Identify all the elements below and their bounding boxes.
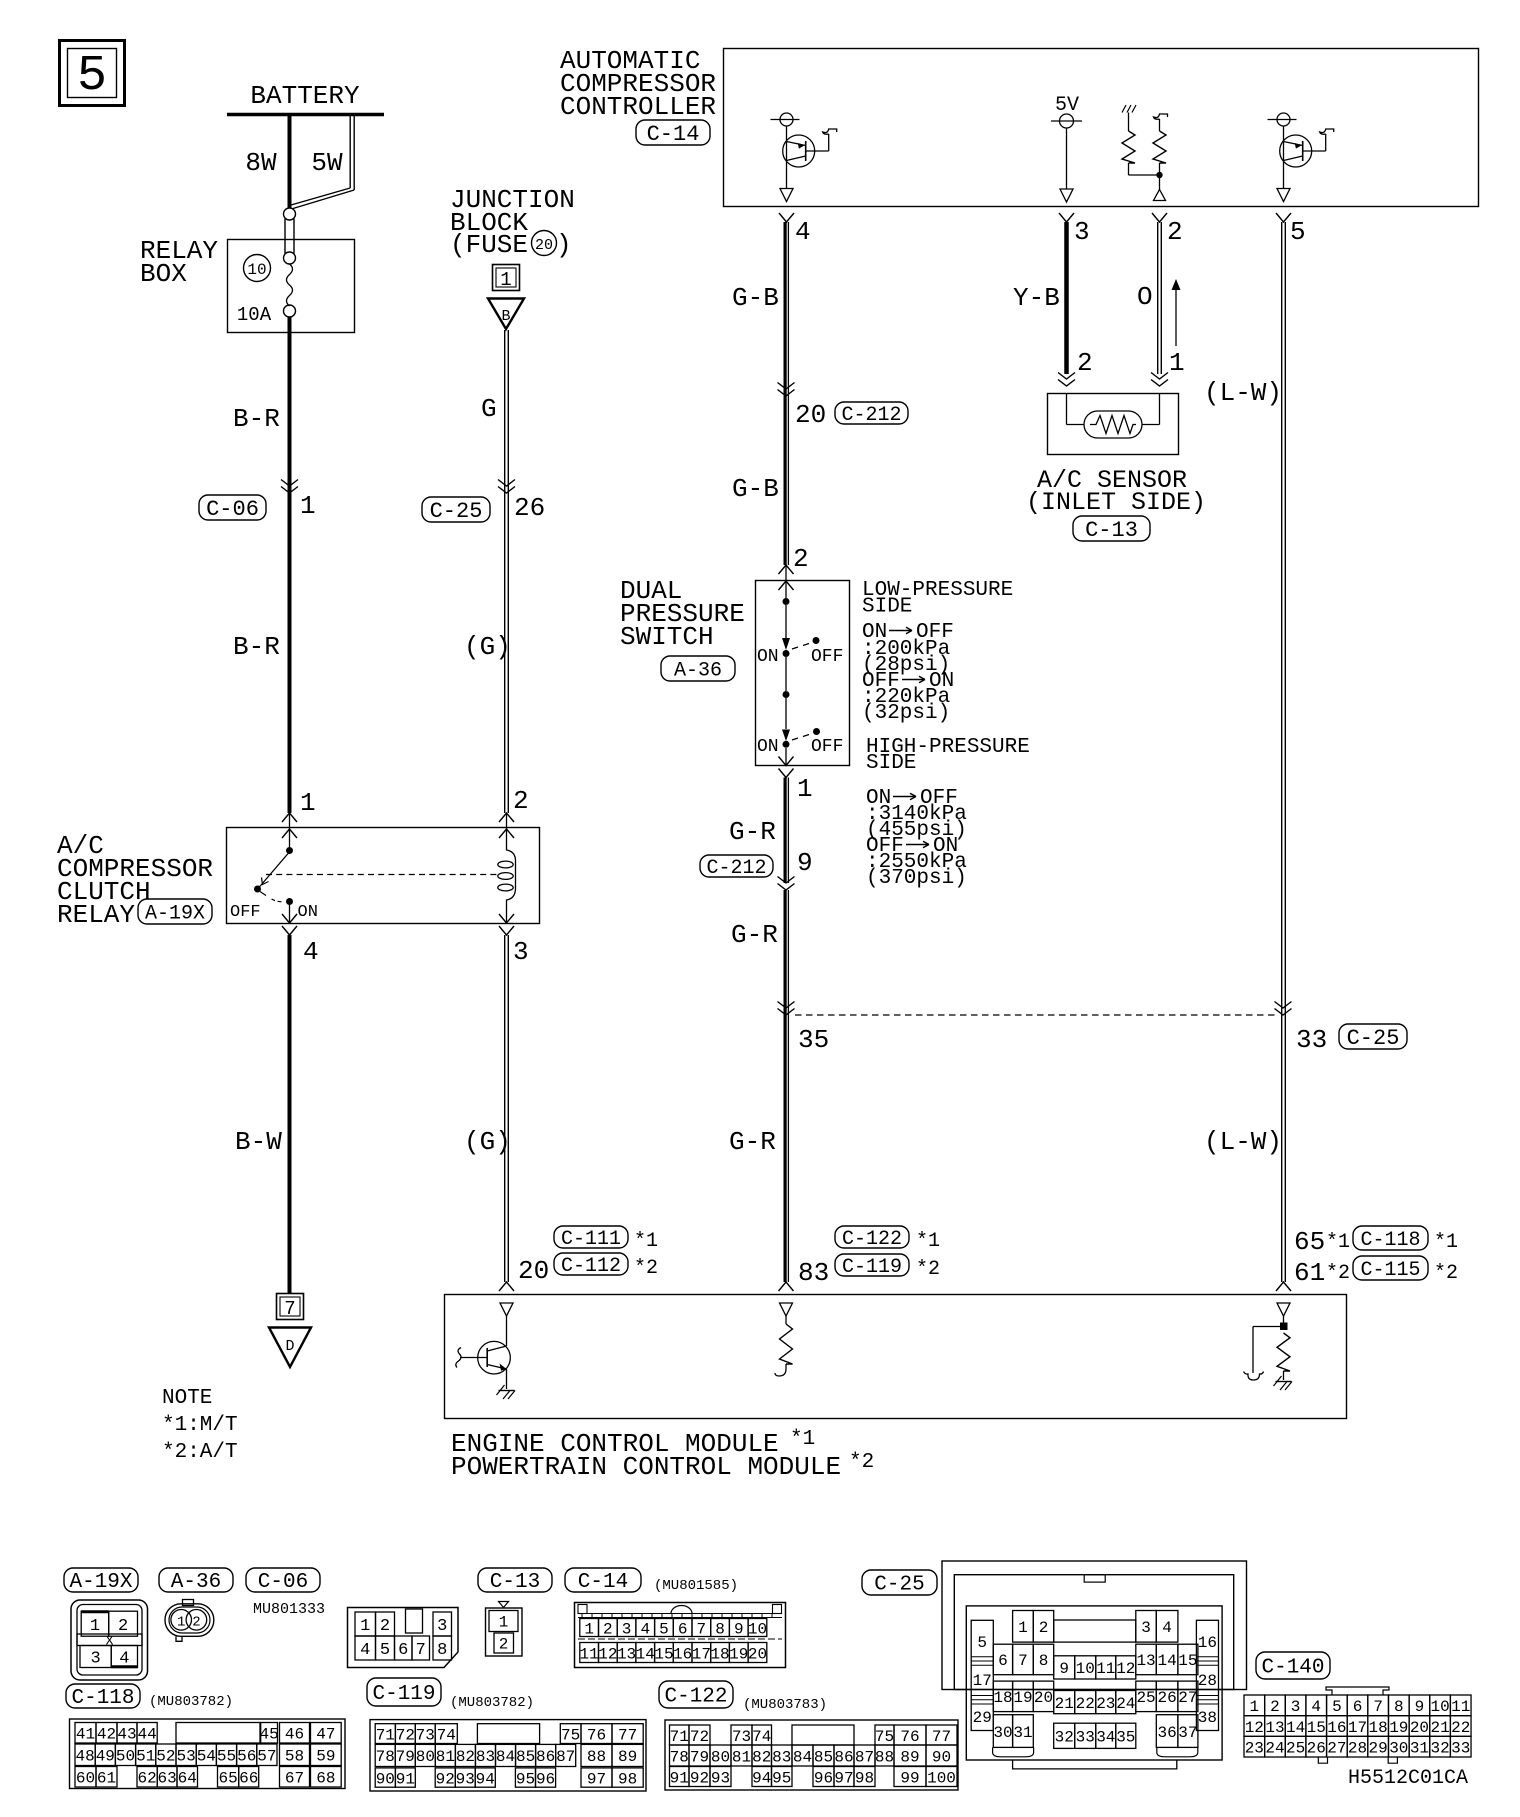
wire O controller pin2 to sensor pin1: [1137, 222, 1161, 374]
A/C sensor (inlet side) C-13 thermistor: [1026, 393, 1206, 543]
connector C-14 pinout: [575, 1603, 786, 1668]
svg-text:96: 96: [814, 1769, 833, 1787]
svg-text:61: 61: [1294, 1258, 1325, 1288]
svg-text:C-14: C-14: [647, 122, 700, 147]
svg-text:10A: 10A: [237, 304, 272, 326]
wire label G-B lower: [732, 474, 779, 504]
svg-text:OFF: OFF: [230, 903, 261, 922]
svg-text:10: 10: [247, 261, 266, 279]
ECM pin 20 entry: [499, 1282, 514, 1316]
svg-text:50: 50: [116, 1748, 135, 1766]
legend label C-25: [862, 1570, 937, 1597]
svg-text:9: 9: [1059, 1660, 1069, 1678]
svg-text:81: 81: [732, 1748, 751, 1766]
junction block fuse 20: [450, 185, 575, 260]
svg-text:SWITCH: SWITCH: [620, 622, 714, 652]
svg-text:4: 4: [303, 937, 319, 967]
svg-text:1: 1: [177, 1615, 185, 1631]
svg-text:25: 25: [1136, 1689, 1155, 1707]
svg-text:*1:M/T: *1:M/T: [162, 1414, 238, 1437]
svg-text:54: 54: [197, 1748, 216, 1766]
svg-text:*2: *2: [634, 1257, 658, 1280]
svg-text:86: 86: [834, 1748, 853, 1766]
svg-text:1: 1: [584, 1620, 594, 1638]
svg-text:2: 2: [603, 1620, 613, 1638]
drawing number H5512C01CA: [1348, 1767, 1468, 1790]
svg-text:1: 1: [1250, 1698, 1260, 1716]
svg-text:G-R: G-R: [729, 817, 776, 847]
svg-text:1: 1: [360, 1617, 370, 1636]
svg-text:64: 64: [178, 1770, 197, 1788]
svg-text:21: 21: [1055, 1695, 1074, 1713]
relay pin 1: [282, 788, 316, 838]
svg-text:2: 2: [118, 1617, 128, 1636]
svg-text:ON: ON: [757, 737, 779, 757]
svg-text:19: 19: [729, 1645, 748, 1663]
svg-text:93: 93: [456, 1770, 475, 1788]
svg-text:78: 78: [376, 1748, 395, 1766]
svg-text:1: 1: [1169, 348, 1185, 378]
legend label C-119: [367, 1678, 534, 1711]
svg-text:11: 11: [1096, 1660, 1115, 1678]
svg-text:49: 49: [96, 1748, 115, 1766]
controller output transistor Q2: [1268, 113, 1334, 202]
svg-text:*1: *1: [916, 1230, 940, 1253]
svg-text:(L-W): (L-W): [1204, 1127, 1282, 1157]
battery: [227, 81, 384, 115]
svg-text:88: 88: [875, 1748, 894, 1766]
svg-text:8: 8: [437, 1641, 447, 1660]
svg-text:*2: *2: [1434, 1262, 1458, 1285]
svg-text:98: 98: [855, 1769, 874, 1787]
svg-text:85: 85: [516, 1748, 535, 1766]
svg-text:6: 6: [998, 1652, 1008, 1670]
svg-text:C-13: C-13: [1085, 518, 1138, 543]
low pressure thresholds: [862, 621, 954, 725]
svg-text:SIDE: SIDE: [862, 595, 912, 618]
svg-text:100: 100: [927, 1769, 956, 1787]
svg-text:10: 10: [1076, 1660, 1095, 1678]
svg-text:1: 1: [499, 1614, 509, 1632]
svg-text:*1: *1: [1326, 1231, 1350, 1254]
svg-text:6: 6: [1353, 1698, 1363, 1716]
svg-text:99: 99: [900, 1769, 919, 1787]
legend label C-122: [659, 1681, 827, 1713]
fusible link: [284, 208, 296, 264]
svg-text:5: 5: [380, 1641, 390, 1660]
svg-text:C-06: C-06: [206, 497, 259, 522]
fuse 10 (10A): [237, 255, 296, 327]
svg-text:1: 1: [1018, 1619, 1028, 1637]
svg-text:20: 20: [535, 237, 553, 254]
svg-text:B-R: B-R: [233, 404, 280, 434]
svg-text:BATTERY: BATTERY: [250, 81, 360, 111]
svg-text:74: 74: [437, 1726, 456, 1744]
sensor pin 1: [1151, 348, 1185, 386]
svg-text:27: 27: [1178, 1689, 1197, 1707]
svg-text:76: 76: [587, 1726, 606, 1744]
svg-text:8: 8: [715, 1620, 725, 1638]
svg-text:22: 22: [1076, 1695, 1095, 1713]
svg-text:3: 3: [622, 1620, 632, 1638]
svg-text:94: 94: [752, 1769, 771, 1787]
svg-text:97: 97: [587, 1770, 606, 1788]
svg-text:15: 15: [1307, 1719, 1326, 1737]
svg-text:30: 30: [993, 1724, 1012, 1742]
wire B-R relay box to C-06: [233, 317, 290, 829]
svg-text:80: 80: [711, 1748, 730, 1766]
svg-text:19: 19: [1389, 1719, 1408, 1737]
svg-text:C-13: C-13: [490, 1571, 540, 1594]
svg-text:24: 24: [1265, 1739, 1284, 1757]
svg-text:OFF: OFF: [811, 737, 843, 757]
svg-text:17: 17: [973, 1672, 992, 1690]
svg-text:13: 13: [1136, 1652, 1155, 1670]
connector C-140 pinout: [1244, 1687, 1471, 1763]
relay pin 3: [499, 914, 529, 967]
svg-text:95: 95: [516, 1770, 535, 1788]
svg-text:8: 8: [1394, 1698, 1404, 1716]
svg-text:C-122: C-122: [842, 1228, 902, 1251]
svg-text:POWERTRAIN CONTROL MODULE: POWERTRAIN CONTROL MODULE: [451, 1452, 841, 1482]
sheet number 5 box: [60, 41, 125, 106]
svg-text:16: 16: [673, 1645, 692, 1663]
svg-text:*1: *1: [634, 1230, 658, 1253]
svg-text:C-111: C-111: [561, 1228, 621, 1251]
svg-text:25: 25: [1286, 1739, 1305, 1757]
svg-text:32: 32: [1430, 1739, 1449, 1757]
svg-text:7: 7: [416, 1641, 426, 1660]
svg-text:56: 56: [237, 1748, 256, 1766]
svg-text:8: 8: [1039, 1652, 1049, 1670]
svg-text:79: 79: [396, 1748, 415, 1766]
svg-text:C-140: C-140: [1261, 1657, 1324, 1680]
svg-text:65: 65: [1294, 1227, 1325, 1257]
wire G-R to ECM: [729, 890, 788, 1282]
relay coil: [498, 829, 516, 923]
svg-text:47: 47: [316, 1726, 335, 1744]
svg-text:53: 53: [176, 1748, 195, 1766]
svg-text:10: 10: [1430, 1698, 1449, 1716]
node 35 C-25: [778, 1002, 830, 1056]
svg-text:C-118: C-118: [1360, 1229, 1420, 1252]
svg-text:32: 32: [1055, 1729, 1074, 1747]
svg-text:11: 11: [580, 1645, 599, 1663]
legend label C-13: [478, 1568, 552, 1594]
svg-text:85: 85: [814, 1748, 833, 1766]
wire 5W battery feed: [291, 116, 354, 209]
svg-text:94: 94: [476, 1770, 495, 1788]
svg-text:48: 48: [75, 1748, 94, 1766]
controller output transistor Q1: [771, 113, 837, 202]
svg-text:84: 84: [496, 1748, 515, 1766]
wire G-B controller pin4 to C-212: [732, 222, 788, 565]
svg-text:89: 89: [618, 1748, 637, 1766]
svg-text:83: 83: [798, 1258, 829, 1288]
svg-text:(G): (G): [464, 632, 511, 662]
svg-text:83: 83: [772, 1748, 791, 1766]
svg-text:26: 26: [1307, 1739, 1326, 1757]
legend label A-19X: [64, 1568, 138, 1594]
svg-text:91: 91: [670, 1769, 689, 1787]
wire G relay to ECM: [464, 935, 511, 1282]
svg-text:35: 35: [798, 1025, 829, 1055]
svg-text:26: 26: [1157, 1689, 1176, 1707]
svg-text:88: 88: [587, 1748, 606, 1766]
svg-text:26: 26: [514, 493, 545, 523]
wire label (G): [464, 632, 511, 662]
svg-text:42: 42: [97, 1726, 116, 1744]
wire G-R switch to C-212: [729, 778, 788, 884]
controller pull-up resistor R2: [1153, 114, 1168, 201]
svg-text:5: 5: [659, 1620, 669, 1638]
svg-text:35: 35: [1116, 1729, 1135, 1747]
svg-text:6: 6: [678, 1620, 688, 1638]
low-pressure side note: [862, 579, 1013, 618]
svg-text:2: 2: [1167, 217, 1183, 247]
svg-text:16: 16: [1327, 1719, 1346, 1737]
note text: [162, 1387, 238, 1464]
terminal triangle B: [488, 299, 524, 330]
svg-text:67: 67: [285, 1770, 304, 1788]
wire G junction block to relay: [481, 330, 508, 829]
wire Y-B controller pin3 to sensor pin2: [1013, 222, 1067, 374]
svg-text:23: 23: [1096, 1695, 1115, 1713]
high pressure thresholds: [866, 787, 967, 890]
connector C-06 inline: [199, 480, 316, 522]
ECM internal resistor right with ground: [1244, 1316, 1293, 1390]
relay pin 2: [499, 786, 529, 838]
controller pin 2: [1152, 213, 1183, 247]
svg-text:3: 3: [90, 1650, 100, 1669]
svg-text:7: 7: [1373, 1698, 1383, 1716]
svg-text:(32psi): (32psi): [862, 702, 950, 725]
connector C-122 pinout: [665, 1720, 958, 1790]
svg-text:58: 58: [285, 1748, 304, 1766]
svg-text:*1: *1: [1434, 1231, 1458, 1254]
svg-text:33: 33: [1451, 1739, 1470, 1757]
svg-text:23: 23: [1245, 1739, 1264, 1757]
svg-text:3: 3: [1141, 1619, 1151, 1637]
svg-text:1: 1: [300, 788, 316, 818]
relay pin 4: [282, 914, 319, 967]
svg-text:43: 43: [117, 1726, 136, 1744]
svg-text:77: 77: [618, 1726, 637, 1744]
svg-text:29: 29: [973, 1709, 992, 1727]
svg-text:22: 22: [1451, 1719, 1470, 1737]
svg-text:63: 63: [157, 1770, 176, 1788]
svg-text:20: 20: [1410, 1719, 1429, 1737]
svg-text:72: 72: [690, 1728, 709, 1746]
A/C compressor clutch relay A-19X: [57, 828, 540, 931]
svg-text:96: 96: [536, 1770, 555, 1788]
svg-text:CONTROLLER: CONTROLLER: [560, 92, 716, 122]
legend label C-140: [1256, 1652, 1330, 1680]
svg-text:2: 2: [499, 1636, 509, 1654]
controller pull-up resistor R1: [1122, 105, 1160, 175]
fuse terminal box 1: [493, 265, 520, 292]
svg-text:1: 1: [90, 1617, 100, 1636]
svg-text:C-115: C-115: [1360, 1259, 1420, 1282]
svg-text:9: 9: [734, 1620, 744, 1638]
svg-text:75: 75: [561, 1726, 580, 1744]
svg-text:*2:A/T: *2:A/T: [162, 1441, 238, 1464]
svg-text:2: 2: [380, 1617, 390, 1636]
svg-text:G-R: G-R: [731, 920, 778, 950]
svg-text:*2: *2: [849, 1451, 874, 1474]
svg-text:D: D: [285, 1338, 294, 1355]
svg-text:(MU803783): (MU803783): [743, 1697, 827, 1713]
svg-text:41: 41: [76, 1726, 95, 1744]
ECM internal transistor: [456, 1316, 515, 1399]
svg-text:90: 90: [376, 1770, 395, 1788]
svg-text:29: 29: [1369, 1739, 1388, 1757]
svg-text:C-119: C-119: [842, 1256, 902, 1279]
wire label B-R lower: [233, 632, 280, 662]
svg-text:51: 51: [136, 1748, 155, 1766]
svg-text:OFF: OFF: [811, 647, 843, 667]
svg-text:1: 1: [500, 269, 511, 291]
svg-text:C-118: C-118: [71, 1687, 134, 1710]
svg-text:60: 60: [76, 1770, 95, 1788]
svg-text:62: 62: [137, 1770, 156, 1788]
high pressure contact ON/OFF: [757, 691, 843, 765]
svg-text:1: 1: [300, 491, 316, 521]
svg-text:5: 5: [77, 48, 107, 105]
svg-text:20: 20: [518, 1256, 549, 1286]
svg-text:55: 55: [217, 1748, 236, 1766]
svg-text:4: 4: [795, 217, 811, 247]
svg-text:72: 72: [396, 1726, 415, 1744]
svg-text:38: 38: [1198, 1709, 1217, 1727]
connector C-111/C-112 labels: [518, 1226, 658, 1286]
pressure switch pin 1: [779, 757, 813, 805]
sensor pin 2: [1058, 348, 1093, 386]
pressure switch pin 2: [779, 544, 809, 590]
svg-text:97: 97: [834, 1769, 853, 1787]
svg-text:12: 12: [598, 1645, 617, 1663]
svg-text:ON: ON: [757, 647, 779, 667]
svg-text:A-19X: A-19X: [69, 1571, 132, 1594]
svg-text:(455psi): (455psi): [866, 819, 967, 842]
svg-text:37: 37: [1178, 1724, 1197, 1742]
connector C-118/C-115 labels: [1294, 1226, 1458, 1288]
svg-text:(FUSE: (FUSE: [450, 230, 528, 260]
svg-text:90: 90: [932, 1748, 951, 1766]
svg-text:71: 71: [670, 1728, 689, 1746]
high-pressure side note: [866, 736, 1030, 775]
svg-text:RELAY: RELAY: [57, 900, 135, 930]
svg-text:C-212: C-212: [841, 404, 901, 427]
wire L-W controller pin5 to ECM: [1204, 222, 1285, 1282]
5V supply: [1051, 94, 1082, 202]
wire B-W relay to ECM: [235, 935, 290, 1293]
svg-text:B-R: B-R: [233, 632, 280, 662]
svg-text:20: 20: [748, 1645, 767, 1663]
svg-text:83: 83: [476, 1748, 495, 1766]
svg-text:*2: *2: [916, 1258, 940, 1281]
part number MU801333: [253, 1601, 325, 1618]
connector A-36 pinout: [165, 1600, 214, 1642]
svg-text:MU801333: MU801333: [253, 1601, 325, 1618]
svg-text:8W: 8W: [245, 148, 277, 178]
svg-text:92: 92: [436, 1770, 455, 1788]
svg-text:76: 76: [900, 1728, 919, 1746]
svg-text:C-112: C-112: [561, 1255, 621, 1278]
svg-text:2: 2: [1077, 348, 1093, 378]
connector C-13 pinout: [486, 1602, 523, 1657]
svg-text:59: 59: [316, 1748, 335, 1766]
svg-text:9: 9: [1415, 1698, 1425, 1716]
svg-text:71: 71: [376, 1726, 395, 1744]
svg-text:): ): [556, 230, 572, 260]
ECM internal resistor mid: [775, 1316, 793, 1376]
svg-text:C-25: C-25: [874, 1574, 924, 1597]
svg-text:31: 31: [1410, 1739, 1429, 1757]
svg-text:18: 18: [710, 1645, 729, 1663]
svg-text:4: 4: [1311, 1698, 1321, 1716]
svg-text:17: 17: [692, 1645, 711, 1663]
ECM pin 83 entry: [779, 1282, 794, 1316]
svg-text:(MU801585): (MU801585): [654, 1578, 738, 1594]
svg-text:95: 95: [772, 1769, 791, 1787]
svg-text:(28psi): (28psi): [862, 654, 950, 677]
svg-text:18: 18: [993, 1689, 1012, 1707]
svg-text:H5512C01CA: H5512C01CA: [1348, 1767, 1468, 1790]
svg-text:C-14: C-14: [578, 1571, 628, 1594]
automatic compressor controller box C-14: [560, 46, 1479, 207]
svg-text:66: 66: [239, 1770, 258, 1788]
svg-text:1: 1: [797, 774, 813, 804]
svg-text:84: 84: [793, 1748, 812, 1766]
connector C-25 pinout: [942, 1561, 1247, 1769]
svg-text:(L-W): (L-W): [1204, 378, 1282, 408]
svg-text:12: 12: [1245, 1719, 1264, 1737]
svg-text:33: 33: [1296, 1025, 1327, 1055]
svg-text:87: 87: [855, 1748, 874, 1766]
svg-text:B: B: [501, 308, 510, 325]
svg-text:61: 61: [97, 1770, 116, 1788]
svg-text:C-06: C-06: [258, 1571, 308, 1594]
svg-text:G-B: G-B: [732, 283, 779, 313]
svg-text:65: 65: [218, 1770, 237, 1788]
connector C-118 pinout: [70, 1719, 346, 1789]
svg-text:82: 82: [456, 1748, 475, 1766]
svg-text:2: 2: [793, 544, 809, 574]
svg-text:93: 93: [711, 1769, 730, 1787]
low pressure contact ON/OFF: [757, 581, 843, 691]
svg-text:(370psi): (370psi): [866, 867, 967, 890]
svg-text:20: 20: [795, 400, 826, 430]
svg-text:C-25: C-25: [1347, 1026, 1400, 1051]
legend label C-06: [246, 1568, 320, 1594]
svg-text:*1: *1: [790, 1428, 815, 1451]
svg-text:O: O: [1137, 282, 1153, 312]
svg-text:36: 36: [1157, 1724, 1176, 1742]
wire 8W battery feed: [245, 116, 289, 208]
svg-text:78: 78: [670, 1748, 689, 1766]
svg-text:19: 19: [1013, 1689, 1032, 1707]
svg-text:2: 2: [1270, 1698, 1280, 1716]
svg-text:24: 24: [1116, 1695, 1135, 1713]
svg-text:SIDE: SIDE: [866, 752, 916, 775]
node 33 C-25: [1275, 1002, 1408, 1056]
svg-text:77: 77: [932, 1728, 951, 1746]
relay box: [140, 236, 355, 333]
svg-text:5W: 5W: [311, 148, 343, 178]
svg-text:5: 5: [1290, 217, 1306, 247]
svg-text:14: 14: [636, 1645, 655, 1663]
